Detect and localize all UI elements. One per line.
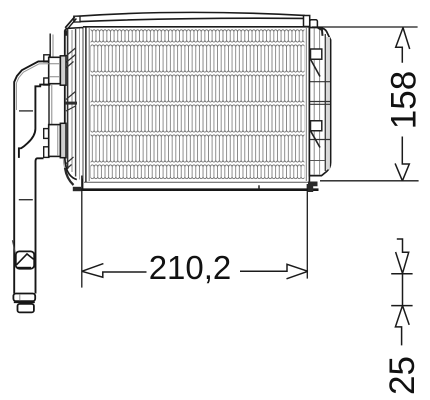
svg-text:25: 25	[383, 356, 422, 395]
tank top edge	[65, 28, 83, 32]
fin core texture	[91, 28, 305, 180]
top header plate	[74, 12, 304, 22]
top pipe fitting	[44, 55, 66, 85]
left tank	[49, 17, 83, 191]
upper pipe outer edge	[14, 61, 49, 293]
core top edge line	[83, 26, 310, 28]
tank interior verticals	[67, 30, 69, 170]
dim 158 top extension line	[312, 26, 418, 28]
tank bottom flare curve	[65, 158, 77, 180]
castellation tabs	[44, 55, 50, 62]
pipe tip end	[18, 304, 34, 313]
core bottom thick plate line	[75, 188, 319, 191]
tank hatch marks	[66, 48, 76, 68]
top diagonal strut (double)	[65, 17, 74, 28]
tank bottom foot	[73, 187, 81, 191]
dim 158 top arrow	[396, 28, 410, 63]
dim 25 top arrow	[396, 239, 409, 273]
nut body	[49, 125, 61, 157]
dim 210,2 right extension line	[306, 184, 308, 279]
lower pipe right edge	[36, 158, 44, 293]
dim 25 lower tick	[391, 305, 412, 307]
tank clip upper	[311, 49, 322, 59]
header right end tabs	[304, 16, 310, 27]
dim 210,2 left extension line	[81, 176, 83, 288]
flange	[60, 56, 66, 85]
pipe clip	[12, 240, 34, 268]
tank top knob	[64, 30, 68, 36]
svg-text:158: 158	[385, 71, 424, 129]
plate edge above top fitting	[49, 34, 51, 57]
dim 158 bottom arrow	[395, 137, 409, 181]
plate edge between fittings	[48, 85, 50, 124]
tank bottom foot bracket	[308, 182, 318, 193]
upper pipe inner edge	[19, 85, 49, 158]
nut body	[49, 57, 61, 83]
upper pipe outer inner gray line	[17, 64, 49, 110]
core bottom thin line	[84, 181, 308, 183]
tank divisions	[310, 81, 330, 83]
flange	[60, 123, 66, 157]
dim 158 bottom extension line	[320, 180, 419, 182]
dim 25 upper tick	[391, 273, 412, 275]
bottom plate tick	[258, 185, 260, 189]
tank bottom thick elbow	[65, 168, 74, 185]
castellation tabs	[44, 129, 49, 139]
tank outer edge	[64, 31, 66, 159]
tank band fill	[65, 29, 83, 179]
svg-text:210,2: 210,2	[149, 249, 232, 286]
bottom pipe fitting	[44, 123, 66, 157]
dim 25 bottom arrow	[395, 306, 409, 346]
right side plate lines	[306, 27, 309, 188]
pipe tick 1	[19, 110, 33, 112]
dim 210,2 left arrow	[82, 264, 147, 278]
dim 210,2 right arrow	[240, 264, 308, 279]
tank top clip hook	[318, 28, 323, 36]
pipe tick 2	[19, 199, 33, 201]
tank clip lower	[311, 121, 322, 131]
pipe tip band	[13, 294, 35, 302]
left side plate lines	[83, 27, 90, 188]
right tank	[308, 28, 331, 193]
pipe tip step line	[14, 301, 35, 303]
dim 25 span line	[402, 274, 404, 306]
